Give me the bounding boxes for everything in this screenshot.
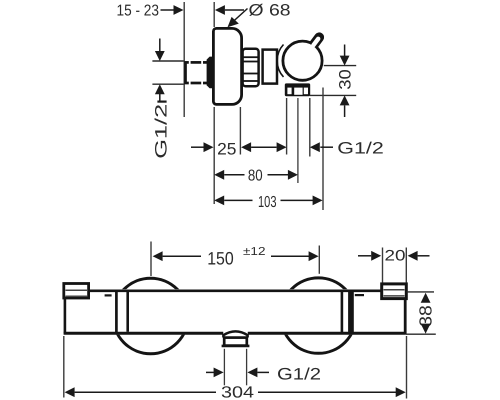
outlet right extension bbox=[309, 98, 311, 157]
handle lever bbox=[313, 37, 320, 46]
knob front extension bbox=[322, 88, 324, 211]
escutcheon left extension bbox=[213, 107, 215, 204]
reference line bottom (30) bbox=[310, 94, 356, 96]
outlet left extension bbox=[286, 98, 288, 155]
lever slot bbox=[313, 39, 318, 45]
left clip mark bbox=[105, 294, 112, 296]
backnut flange bbox=[207, 57, 214, 89]
dimension G1/2 (outlet, top view) bbox=[310, 140, 384, 158]
right cap line 1 bbox=[341, 291, 344, 334]
dimension 30 bbox=[337, 45, 355, 118]
escutcheon (Ø68) bbox=[213, 28, 241, 104]
bar bottom reference line bbox=[406, 333, 436, 335]
outlet extension lines bbox=[224, 349, 246, 386]
svg-text:103: 103 bbox=[258, 194, 277, 211]
pipe (wall supply nipple) bbox=[186, 61, 210, 85]
dimension 20 bbox=[358, 248, 430, 283]
dimension 150 ±12 bbox=[151, 242, 319, 277]
svg-text:25: 25 bbox=[217, 140, 236, 159]
outlet centerline bbox=[297, 98, 299, 183]
svg-text:80: 80 bbox=[248, 168, 263, 185]
dimension 15-23 bbox=[117, 3, 245, 20]
svg-text:20: 20 bbox=[385, 248, 406, 265]
right knob circle bbox=[281, 278, 356, 353]
nipple reference line bbox=[407, 291, 435, 293]
dimension 304 bbox=[64, 336, 407, 400]
left cap line 1 bbox=[115, 292, 118, 334]
svg-text:150: 150 bbox=[207, 248, 234, 268]
svg-text:15 - 23: 15 - 23 bbox=[117, 3, 160, 20]
valve body bbox=[263, 50, 277, 84]
bottom outlet (front view) bbox=[222, 331, 250, 346]
knob circle bbox=[283, 41, 322, 80]
svg-text:38: 38 bbox=[416, 305, 436, 327]
dimension 103 bbox=[214, 194, 322, 211]
svg-text:G1/2: G1/2 bbox=[337, 140, 384, 158]
pipe diameter dimension (G1/2 left) bbox=[152, 39, 183, 159]
svg-text:G1/2: G1/2 bbox=[152, 104, 170, 159]
outlet nut (side view) bbox=[285, 83, 310, 96]
right clip mark bbox=[355, 294, 364, 296]
svg-text:30: 30 bbox=[337, 69, 355, 90]
dimension 25 bbox=[191, 140, 287, 159]
right cap thick edge bbox=[348, 292, 354, 334]
escutcheon top extension line bbox=[213, 2, 215, 27]
reference line top (30) bbox=[324, 65, 356, 67]
svg-text:±12: ±12 bbox=[243, 246, 266, 258]
wall extension line bbox=[183, 2, 185, 117]
left knob circle bbox=[113, 278, 188, 353]
dimension 38 bbox=[416, 293, 436, 334]
dimension Ø 68 leader bbox=[228, 2, 291, 28]
svg-text:G1/2: G1/2 bbox=[277, 364, 321, 383]
left wall thread bbox=[64, 284, 89, 299]
crescent contour bbox=[277, 45, 283, 77]
svg-text:304: 304 bbox=[221, 384, 254, 400]
mixer bar body bbox=[64, 289, 406, 334]
dimension G1/2 (bottom) bbox=[206, 364, 321, 383]
svg-text:Ø 68: Ø 68 bbox=[249, 2, 291, 20]
hose nipple (right outlet) bbox=[382, 284, 407, 299]
knurled ring bbox=[243, 49, 259, 86]
left cap line 2 bbox=[126, 291, 129, 332]
left union body edge bbox=[64, 298, 67, 334]
escutcheon right extension bbox=[239, 107, 241, 155]
dimension 80 bbox=[214, 168, 298, 185]
